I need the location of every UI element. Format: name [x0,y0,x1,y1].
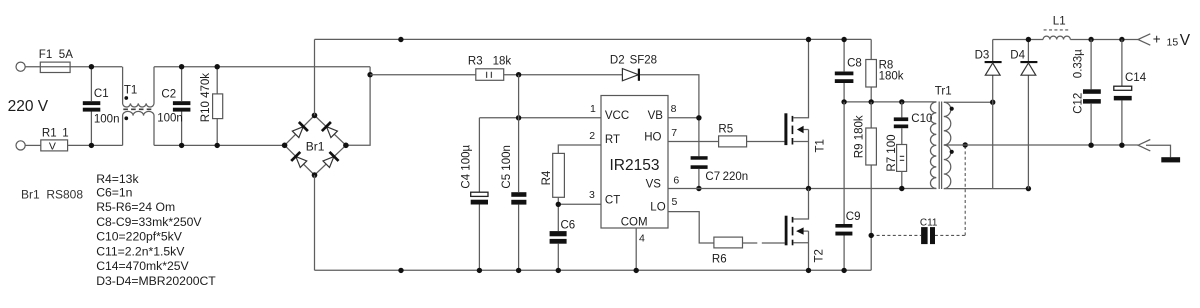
svg-text:D3-D4=MBR20200CT: D3-D4=MBR20200CT [96,274,216,288]
wire: bottom AC input line [25,144,40,146]
node: R3 feed junction [367,72,372,77]
svg-text:C8-C9=33mk*250V: C8-C9=33mk*250V [96,215,202,229]
svg-text:Br1: Br1 [306,140,325,154]
capacitor C6 [550,231,567,236]
node: VB junction [696,115,701,120]
svg-text:7: 7 [671,127,677,139]
svg-text:220 V: 220 V [8,98,49,115]
node: C10 top junction [899,99,904,104]
svg-text:RT: RT [605,134,620,146]
wire: top AC input line [25,66,122,68]
svg-text:SF28: SF28 [630,55,658,67]
node: R3 output junction [516,72,521,77]
node: top rail stray junction [398,37,403,42]
wire: common to ground [1146,145,1171,157]
node: C14 bottom junction [1119,143,1124,148]
output terminal common [1138,140,1150,151]
svg-text:C10=220pf*5kV: C10=220pf*5kV [96,230,183,244]
node: secondary polarity dot top [950,107,954,111]
capacitor C9 [843,102,845,270]
wire: filtered bottom line [154,144,285,146]
node: C12 bottom junction [1088,143,1093,148]
wire: top line corner to bridge right node [346,67,370,146]
node: C8 top junction [841,37,846,42]
resistor R4 [553,153,565,197]
node: C4 ground junction [477,268,482,273]
transistor T2 [785,216,788,246]
svg-text:C1: C1 [94,88,109,100]
svg-text:+: + [1153,32,1161,47]
resistor R9 [870,102,872,270]
wire: VS pin line [668,188,936,190]
wire: secondary bottom lead [944,188,1029,190]
bridge rectifier Br1 [285,115,346,175]
node: C2 bottom junction [179,143,184,148]
resistor R7 [897,145,907,172]
node: half-bridge midpoint [806,186,811,191]
svg-text:C2: C2 [161,89,176,101]
resistor R8 [870,39,872,102]
svg-text:VCC: VCC [605,110,629,122]
node: R10 bottom junction [215,143,220,148]
svg-text:CT: CT [605,194,620,206]
svg-text:4: 4 [639,233,645,245]
capacitor C11 (dashed Y-link) [871,145,965,235]
node: CT junction [556,202,561,207]
node: bridge bottom [312,172,318,178]
capacitor C14 [1121,40,1123,146]
svg-text:T1: T1 [124,85,137,97]
svg-text:C14: C14 [1125,72,1147,84]
svg-text:15: 15 [1167,37,1179,49]
svg-text:T2: T2 [814,249,826,262]
capacitor C2 [181,67,183,146]
capacitor C7 [691,156,708,160]
node: C8-C9 junction [841,99,846,104]
node: VCC junction [516,115,521,120]
capacitor C12 [1090,40,1092,146]
node: COM ground junction [634,268,639,273]
wire: RT pin line [558,145,601,153]
input terminal top [16,62,25,71]
node: bridge right [343,143,349,149]
svg-text:R5: R5 [718,123,733,135]
node: R10 top junction [215,64,220,69]
capacitor C5 [518,75,520,271]
svg-text:COM: COM [621,217,648,229]
node: D4 anode junction [1026,186,1031,191]
svg-text:D2: D2 [610,55,625,67]
svg-text:1: 1 [590,103,596,115]
svg-text:HO: HO [644,132,661,144]
diode D4 [1027,40,1029,189]
node: C5 ground junction [516,268,521,273]
capacitor C10 [901,102,903,145]
svg-text:R4: R4 [541,170,553,185]
node: C9 ground junction [841,268,846,273]
inductor L1 [1043,36,1070,39]
node: T1 drain junction [806,37,811,42]
node: C6 ground junction [556,268,561,273]
wire: VCC line [479,117,601,119]
svg-text:C12: C12 [1072,93,1084,114]
svg-text:R6: R6 [712,253,727,265]
svg-text:Tr1: Tr1 [935,86,952,98]
input terminal bottom [16,141,25,150]
svg-text:100n: 100n [94,113,120,125]
svg-text:VB: VB [648,110,664,122]
node: T2 source ground junction [806,268,811,273]
node: C1 top junction [89,64,94,69]
wire: secondary center lead [944,144,1138,146]
svg-text:R9 180k: R9 180k [854,115,866,158]
svg-text:8: 8 [671,103,677,115]
wire: LO pin line to R6 [668,212,714,243]
svg-text:IR2153: IR2153 [610,157,660,174]
svg-text:C6=1n: C6=1n [96,185,132,199]
transformer Tr1 core [939,102,941,190]
svg-text:T1: T1 [815,139,827,152]
svg-text:R7 100: R7 100 [886,135,898,172]
wire: HO pin line [668,141,719,143]
svg-text:C9: C9 [846,211,861,223]
node: bridge top [312,113,318,119]
svg-text:C10: C10 [911,113,932,125]
svg-text:220n: 220n [723,171,749,183]
common-mode choke T1 [123,67,154,107]
transformer Tr1 primary [930,102,936,188]
node: R8-R9 junction [869,99,874,104]
wire: DC- bottom rail [315,269,872,271]
svg-text:V: V [1180,32,1191,49]
diode Br1 D-b [322,122,339,139]
svg-text:18k: 18k [493,56,512,68]
node: D4 cathode junction [1026,37,1031,42]
svg-text:C8: C8 [847,57,862,69]
svg-text:LO: LO [650,202,665,214]
svg-text:D3: D3 [975,49,990,61]
svg-text:R3: R3 [468,56,483,68]
svg-text:Br1 RS808: Br1 RS808 [21,188,83,202]
resistor R6 [714,237,743,248]
ground [1161,157,1180,162]
svg-text:R5-R6=24 Om: R5-R6=24 Om [96,200,175,214]
svg-text:C7: C7 [705,171,720,183]
capacitor C1 [90,67,92,146]
svg-text:5A: 5A [59,49,73,61]
fuse F1 [40,62,70,72]
op-amp U1 IR2153 [601,96,668,229]
transformer Tr1 secondary [944,102,951,188]
node: C7 to VS junction [696,186,701,191]
diode Br1 D-c [291,152,308,169]
node: C11 tap junction [869,233,874,238]
svg-text:5: 5 [672,196,678,208]
node: C2 top junction [179,64,184,69]
svg-text:6: 6 [673,174,679,186]
wire: rectified output top line [993,39,1138,41]
svg-text:C14=470mk*25V: C14=470mk*25V [96,259,189,273]
output terminal +15V [1138,34,1150,45]
node: secondary center tap junction [963,142,968,147]
wire: bottom line to bridge [68,144,123,146]
resistor R10 [216,67,218,146]
wire: half-bridge capacitor midpoint line (node A) [844,101,936,103]
svg-text:F1: F1 [39,49,52,61]
svg-text:D4: D4 [1010,49,1025,61]
wire: IC supply feed line [370,75,699,157]
svg-text:R10 470k: R10 470k [200,73,212,122]
wire: filtered top line [154,66,370,68]
diode Br1 D-a [291,122,308,139]
node: C1 bottom junction [89,143,94,148]
node: C14 top junction [1119,37,1124,42]
resistor R3 [476,69,504,81]
node: C12 top junction [1088,37,1093,42]
svg-text:R1: R1 [42,127,57,139]
wire: CT pin line [558,203,601,205]
svg-text:C11=2.2n*1.5kV: C11=2.2n*1.5kV [96,244,185,258]
node: bridge left [282,143,288,149]
label parts list [96,172,216,288]
svg-text:100n: 100n [157,113,183,125]
diode D3 [992,40,994,189]
transistor T1 [784,113,787,145]
node: D3 anode junction [990,100,995,105]
wire: R4 to CT [557,197,559,231]
svg-text:C11: C11 [920,218,938,229]
svg-text:V: V [49,141,56,153]
wire: bridge minus drop [314,175,316,270]
wire: VB pin stub [668,117,699,119]
wire: secondary top lead [944,101,993,103]
wire: R5 to T1 gate [747,141,785,143]
svg-text:R8: R8 [879,59,894,71]
svg-text:L1: L1 [1053,15,1066,27]
svg-text:VS: VS [646,178,662,190]
wire: bridge plus riser [314,39,316,115]
capacitor C4 [478,118,480,270]
svg-text:C5 100n: C5 100n [501,145,513,188]
wire: R6 to T2 gate (with gap) [743,242,785,244]
node: bottom rail stray junction [398,268,403,273]
capacitor C8 [843,40,845,102]
svg-text:C4 100µ: C4 100µ [460,145,472,189]
resistor R5 [719,136,747,147]
svg-text:0.33µ: 0.33µ [1072,49,1084,78]
node: R7 bottom junction [899,186,904,191]
wire: DC+ top rail [315,38,872,40]
varistor R1 [41,140,68,151]
svg-text:R4=13k: R4=13k [96,172,139,186]
svg-text:3: 3 [589,189,595,201]
svg-text:C6: C6 [561,220,576,232]
node: secondary polarity dot bottom [950,150,954,154]
svg-text:1: 1 [62,127,68,139]
wire: COM pin stub [635,228,637,270]
diode D2 [622,69,638,81]
diode Br1 D-d [322,152,339,169]
svg-text:2: 2 [589,130,595,142]
svg-text:180k: 180k [879,71,904,83]
